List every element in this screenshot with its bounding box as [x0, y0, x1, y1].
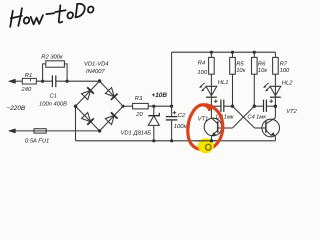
node C2 / riser junction [170, 105, 173, 108]
svg-text:100: 100 [197, 69, 207, 76]
diode bridge VD1-VD4 diamond [76, 81, 124, 131]
LED HL1 emission arrows [199, 83, 206, 92]
resistor R3 [133, 103, 149, 109]
wire bottom rail [76, 140, 276, 142]
diode VD bridge bottom-left [82, 113, 94, 125]
node VT1 emitter on rail [210, 139, 213, 142]
svg-text:HL1: HL1 [218, 80, 229, 86]
logo "How-toDo" handwritten [10, 4, 93, 27]
plus mark C2 [173, 111, 177, 115]
wire C1 to bridge top corner [56, 80, 100, 82]
wire VT2 base cross-coupling diagonal to node B [233, 106, 255, 128]
zener diode VD1 D814B [148, 106, 159, 141]
wire bridge right corner to R3 [123, 105, 133, 107]
node B R5/C3 junction [231, 105, 234, 108]
svg-text:240: 240 [21, 86, 32, 93]
svg-text:1мк: 1мк [224, 114, 234, 120]
svg-text:R2 300к: R2 300к [41, 54, 63, 61]
wire riser to top rail [171, 52, 173, 106]
node R4 top rail junction [210, 51, 213, 54]
wire DC minus riser from bridge left corner [75, 106, 77, 141]
wire R3 to C2 node (+10V) [148, 105, 171, 107]
capacitor C4 electrolytic [254, 105, 275, 107]
svg-text:R6: R6 [258, 61, 266, 68]
annotation yellow marker dot [198, 138, 214, 153]
plus mark C4 [269, 99, 273, 103]
node bridge left corner [74, 105, 77, 108]
svg-text:0.5A: 0.5A [25, 137, 37, 144]
fuse FU1 [34, 129, 46, 133]
capacitor C3 electrolytic [211, 105, 232, 107]
node R6 top rail junction [253, 51, 256, 54]
svg-text:FU1: FU1 [38, 138, 49, 144]
svg-text:C1: C1 [50, 93, 57, 100]
annotation red marker circle around VT1 [188, 105, 223, 150]
wire VT1 base cross-coupling diagonal to node C [232, 106, 254, 128]
transistor VT2 emitter arrow [271, 132, 276, 136]
svg-text:R4: R4 [198, 60, 205, 66]
node junction R2-left on AC line [41, 80, 44, 83]
resistor R4 [209, 52, 215, 86]
diode VD bridge bottom-right [105, 112, 117, 124]
wire bottom AC line to fuse [15, 130, 35, 132]
svg-text:VD1-VD4: VD1-VD4 [84, 62, 108, 68]
wire bottom rail redrawn over yellow dot [197, 140, 216, 142]
svg-text:20: 20 [135, 111, 143, 118]
node R5 top rail junction [231, 51, 234, 54]
svg-text:R1: R1 [25, 73, 32, 79]
svg-text:C4: C4 [247, 113, 254, 120]
svg-text:10к: 10к [258, 67, 267, 74]
wire R2 branch right riser [64, 64, 67, 81]
LED HL2 [270, 52, 281, 106]
terminal arrow top (~220V input) [8, 79, 16, 84]
svg-text:IN4007: IN4007 [86, 68, 105, 75]
diode VD bridge top-right [105, 88, 117, 100]
svg-text:100n 400В: 100n 400В [39, 100, 67, 107]
node zener bottom on rail [152, 139, 155, 142]
resistor R5 [230, 52, 236, 106]
wire top rail [172, 51, 276, 53]
annotation small ring inside yellow dot [206, 144, 211, 150]
svg-text:HL2: HL2 [282, 80, 293, 87]
wire R2 branch left riser [43, 64, 46, 81]
node bridge top corner [98, 79, 101, 82]
plus mark C3 [214, 99, 218, 103]
diode VD bridge top-left [82, 87, 94, 99]
svg-text:R5: R5 [236, 62, 244, 68]
capacitor C2 electrolytic [166, 117, 178, 120]
LED HL1 [206, 86, 217, 106]
node VT1 emitter dot redrawn [210, 139, 213, 142]
capacitor C1 [52, 75, 55, 87]
svg-text:1мк: 1мк [256, 114, 266, 120]
node bridge right corner [122, 105, 125, 108]
svg-text:C2: C2 [178, 112, 186, 119]
transistor VT1 [204, 106, 232, 141]
svg-text:VD1: VD1 [121, 130, 132, 136]
svg-text:Д814Б: Д814Б [133, 129, 152, 136]
wire fuse to bridge bottom corner [46, 130, 99, 132]
node D VT2 collector junction [274, 105, 277, 108]
node bridge bottom corner [98, 129, 101, 132]
svg-text:~220В: ~220В [7, 105, 26, 112]
wire R1 to C1 [36, 80, 52, 82]
terminal arrow bottom (~220V input) [8, 128, 16, 133]
node junction R2-right on AC line [66, 80, 69, 83]
svg-text:VT2: VT2 [286, 108, 297, 115]
wire top AC line [15, 80, 23, 82]
svg-text:R7: R7 [280, 62, 288, 68]
svg-text:100: 100 [280, 67, 290, 74]
svg-text:R3: R3 [135, 95, 143, 102]
resistor R6 [252, 52, 258, 106]
node C2 bottom on rail [170, 139, 173, 142]
svg-text:+10В: +10В [152, 92, 168, 99]
node zener top junction [152, 105, 155, 108]
svg-text:VT1: VT1 [198, 117, 209, 123]
resistor R2 [46, 61, 65, 67]
transistor VT1 emitter arrow [211, 132, 216, 136]
node A VT1 collector junction [210, 105, 213, 108]
resistor R7 [273, 57, 279, 86]
transistor VT2 [255, 106, 280, 141]
LED HL2 emission arrows [263, 83, 270, 92]
svg-text:10к: 10к [236, 67, 245, 74]
node C R6/C4 junction [253, 105, 256, 108]
resistor R1 [22, 78, 36, 84]
